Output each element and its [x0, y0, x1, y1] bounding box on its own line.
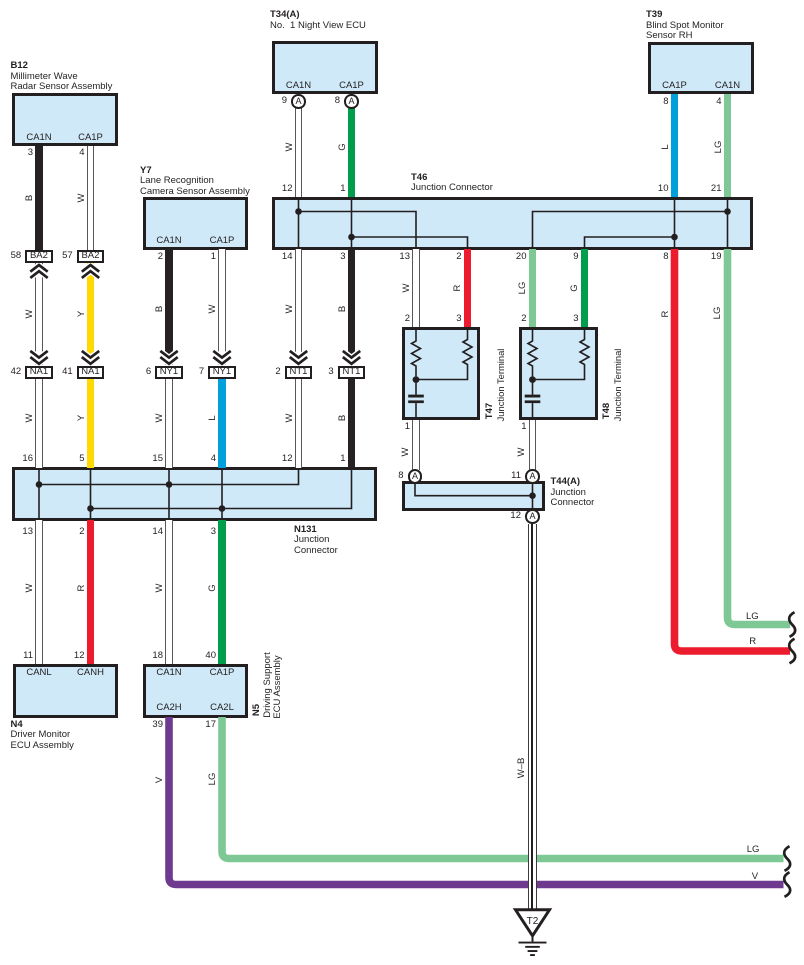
pin 14 N131 — [133, 527, 163, 537]
pin 1 T47 — [380, 422, 410, 432]
pin 3 N131 — [186, 527, 216, 537]
connector T44(A) pin11 connector A — [525, 469, 540, 484]
pin 12 T46 — [263, 184, 293, 194]
label N5 — [252, 704, 262, 716]
T46 interior wire to pin2 — [352, 237, 468, 249]
ECU Y7 Lane Recognition Camera Sensor Assembly — [143, 197, 248, 250]
label B — [25, 195, 35, 201]
wire W N131 pin13 to N4 CANL — [35, 520, 43, 664]
label LG — [714, 141, 724, 154]
label T47 — [485, 402, 495, 418]
pin 2 T47 — [380, 314, 410, 324]
wire V from N5 pin39 to right edge — [169, 717, 784, 885]
pin 10 T46 — [639, 184, 669, 194]
ground T2 — [516, 910, 550, 956]
chevron above NT1 pin2 — [290, 351, 307, 358]
label W — [285, 413, 295, 422]
pin names B12 — [9, 133, 69, 143]
pin names T39 — [645, 81, 705, 91]
node T46 pin21 junction — [724, 208, 731, 215]
node T46 pin1 junction — [348, 234, 355, 241]
label W — [402, 283, 412, 292]
wire G N131 pin3 to N5 CA1P — [218, 520, 226, 664]
continuation symbol R wire — [789, 639, 795, 664]
pin 8 T39 CA1P — [639, 97, 669, 107]
ECU T34(A) No.1 Night View ECU — [272, 41, 378, 94]
wire W-B T44(A) pin12 to ground T2 — [528, 524, 537, 911]
connector NT1 pin2 — [285, 366, 313, 379]
wire B B12 CA1N to BA2 — [35, 146, 43, 250]
wire B Y7 CA1N to NY1 — [165, 249, 173, 365]
label R — [77, 585, 87, 592]
T46 interior wire pin12-pin14 — [298, 198, 300, 249]
chevron below BA2 pin58 — [30, 265, 47, 272]
chevron below BA2 pin57 — [82, 265, 99, 272]
wire L T39 CA1P to T46 pin10 — [671, 94, 679, 197]
pin 5 N131 — [55, 454, 85, 464]
wire Y BA2 to NA1 — [87, 263, 95, 366]
wire W T47 pin1 to T44(A) pin8 — [412, 420, 420, 471]
N131 interior wire pin1 branch — [91, 468, 352, 509]
label B12 — [11, 61, 113, 93]
label T34(A) — [270, 10, 366, 31]
wire W T34(A) CA1N to T46 pin12 — [295, 108, 303, 197]
svg-text:T2: T2 — [527, 916, 539, 927]
label L — [208, 415, 218, 420]
node T46 pin12 junction — [295, 208, 302, 215]
pin 12 N131 — [263, 454, 293, 464]
wire G T46 pin9 to T48 pin3 — [581, 249, 589, 327]
label L — [661, 144, 671, 149]
pin names T34(A) — [269, 81, 329, 91]
ECU N4 Driver Monitor ECU Assembly — [13, 664, 118, 718]
pin 16 N131 — [3, 454, 33, 464]
chevron above NY1 pin6 — [160, 351, 177, 358]
pin 12 N4 CANH — [55, 651, 85, 661]
connector T44(A) pin12 connector A — [525, 509, 540, 524]
resistor T47 right — [419, 328, 472, 380]
pin 1 T46 — [316, 184, 346, 194]
wire W N131 pin14 to N5 CA1N — [165, 520, 173, 664]
pin 2 T48 — [497, 314, 527, 324]
label W — [25, 310, 35, 319]
pin 40 N5 CA1P — [186, 651, 216, 661]
pin 20 T46 — [497, 252, 527, 262]
N131 interior wire pin15-pin14 — [168, 468, 170, 520]
connector NY1 pin7 — [208, 366, 236, 379]
N131 interior wire pin12 branch — [39, 468, 299, 485]
label LG — [713, 307, 723, 320]
T46 interior wire to pin13 — [299, 212, 417, 250]
wire LG T39 CA1N to T46 pin21 — [724, 94, 732, 197]
ECU B12 Millimeter Wave Radar Sensor Assembly — [12, 93, 118, 146]
wire L NY1 to N131 pin4 — [218, 379, 226, 469]
wire R N131 pin2 to N4 CANH — [87, 520, 95, 664]
pin 1 Y7 CA1P — [186, 252, 216, 262]
node N131 pin15 junction — [166, 481, 173, 488]
label V — [155, 777, 165, 783]
label LG — [746, 612, 759, 622]
pin 13 T46 — [380, 252, 410, 262]
label W — [25, 584, 35, 593]
pin 2 T46 — [432, 252, 462, 262]
label LG — [208, 773, 218, 786]
pin 13 N131 — [3, 527, 33, 537]
wire LG from N5 pin17 to right edge — [222, 717, 784, 859]
pin names N5 — [139, 668, 199, 678]
connector T34(A) pin9 connector A — [291, 94, 306, 109]
label T46 — [411, 173, 493, 194]
wire W B12 CA1P to BA2 — [87, 146, 95, 250]
label W — [285, 143, 295, 152]
pin 9 T46 — [549, 252, 579, 262]
label R — [453, 284, 463, 291]
continuation symbol LG wire — [789, 612, 795, 637]
connector T44(A) pin8 connector A — [408, 469, 423, 484]
T46 interior wire pin10-pin8 — [674, 198, 676, 249]
pin 19 T46 — [692, 252, 722, 262]
label Y7 — [140, 166, 250, 198]
wire W NY1 to N131 pin15 — [165, 379, 173, 469]
wire R from T46 pin8 to right edge — [675, 249, 791, 651]
connector NA1 pin41 — [77, 366, 105, 379]
T46 interior wire to pin9 — [585, 237, 675, 249]
wire W Y7 CA1P to NY1 — [218, 249, 226, 365]
junction connector N131 — [12, 467, 378, 521]
node T48 junction — [529, 376, 536, 383]
pin 3 T48 — [549, 314, 579, 324]
connector BA2 pin58 — [25, 250, 53, 263]
connector NT1 pin3 — [338, 366, 366, 379]
node T44(A) junction — [529, 492, 536, 499]
junction connector T44(A) — [402, 481, 545, 511]
label V — [752, 872, 758, 882]
capacitor T48 — [532, 383, 534, 395]
resistor T48 right — [536, 328, 590, 380]
pin 1 T48 — [497, 422, 527, 432]
T46 interior wire pin21-pin19 — [727, 198, 729, 249]
junction terminal T48 — [519, 327, 598, 420]
resistor T47 left — [412, 328, 421, 376]
T46 interior wire to pin20 — [533, 212, 728, 250]
wire LG from T46 pin19 to right edge — [728, 249, 791, 625]
label N4 — [11, 720, 74, 752]
wire W NA1 to N131 pin16 — [35, 379, 43, 469]
label W-B — [517, 758, 527, 779]
connector BA2 pin57 — [77, 250, 105, 263]
T46 interior wire pin1-pin3 — [351, 198, 353, 249]
wire B T46 pin3 to NT1 — [348, 249, 356, 365]
chevron above NA1 pin41 — [82, 351, 99, 358]
label Y — [77, 311, 87, 317]
label N131 — [294, 525, 338, 557]
wire W NT1 to N131 pin12 — [295, 379, 303, 469]
connector NA1 pin42 — [25, 366, 53, 379]
label W — [401, 448, 411, 457]
pin 17 N5 CA2L — [186, 720, 216, 730]
label B — [338, 306, 348, 312]
label G — [570, 284, 580, 291]
wire G T34(A) CA1P to T46 pin1 — [348, 108, 356, 197]
T44(A) interior wire pin8 branch — [415, 482, 533, 496]
pin 1 N131 — [316, 454, 346, 464]
junction terminal T47 — [402, 327, 481, 420]
pin 3 T46 — [316, 252, 346, 262]
connector NY1 pin6 — [155, 366, 183, 379]
pin 4 B12 CA1P — [55, 148, 85, 158]
label R — [749, 637, 756, 647]
wire Y NA1 to N131 pin5 — [87, 379, 95, 469]
chevron above NA1 pin42 — [30, 351, 47, 358]
pin names N4 — [9, 668, 69, 678]
label G — [208, 584, 218, 591]
pin 8 T46 — [639, 252, 669, 262]
pin 2 N131 — [55, 527, 85, 537]
resistor T48 left — [528, 328, 537, 376]
label T48 — [602, 402, 612, 418]
pin 18 N5 CA1N — [133, 651, 163, 661]
T44(A) interior wire pin11-pin12 — [532, 482, 534, 510]
ECU N5 Driving Support ECU Assembly — [143, 664, 248, 718]
pin 21 T46 — [692, 184, 722, 194]
label LG — [747, 845, 760, 855]
wire B NT1 to N131 pin1 — [348, 379, 356, 469]
node N131 pin16 junction — [36, 481, 43, 488]
label B — [155, 306, 165, 312]
pin 15 N131 — [133, 454, 163, 464]
label Y — [77, 414, 87, 420]
wire R T46 pin2 to T47 pin3 — [464, 249, 472, 327]
label W — [517, 448, 527, 457]
pin 3 B12 CA1N — [3, 148, 33, 158]
node T47 junction — [413, 376, 420, 383]
wire LG T46 pin20 to T48 pin2 — [529, 249, 537, 327]
wire W T46 pin13 to T47 pin2 — [412, 249, 420, 327]
wire W T46 pin14 to NT1 — [295, 249, 303, 365]
node T46 pin10 junction — [671, 234, 678, 241]
label W — [285, 305, 295, 314]
label W — [155, 413, 165, 422]
ECU T39 Blind Spot Monitor Sensor RH — [648, 42, 754, 94]
label W — [155, 584, 165, 593]
N131 interior wire pin4-pin3 — [221, 468, 223, 520]
pin 2 Y7 CA1N — [133, 252, 163, 262]
chevron above NY1 pin7 — [213, 351, 230, 358]
label W — [208, 305, 218, 314]
label R — [661, 311, 671, 318]
label LG — [518, 281, 528, 294]
pin 3 T47 — [432, 314, 462, 324]
junction connector T46 — [272, 197, 753, 250]
label W — [77, 194, 87, 203]
wire W T48 pin1 to T44(A) pin11 — [529, 420, 537, 471]
pin names Y7 — [139, 236, 199, 246]
label T44(A) — [551, 477, 595, 509]
chevron above NT1 pin3 — [343, 351, 360, 358]
wire W BA2 to NA1 — [35, 263, 43, 366]
capacitor T47 — [415, 383, 417, 395]
label W — [25, 413, 35, 422]
pin 4 T39 CA1N — [692, 97, 722, 107]
node N131 pin5 junction — [87, 505, 94, 512]
node N131 pin4 junction — [219, 505, 226, 512]
continuation symbol V wire bottom — [784, 872, 790, 897]
label T39 — [646, 10, 724, 42]
label G — [338, 143, 348, 150]
connector T34(A) pin8 connector A — [344, 94, 359, 109]
pin 4 N131 — [186, 454, 216, 464]
N131 interior wire pin5-pin2 — [90, 468, 92, 520]
continuation symbol LG wire bottom — [784, 846, 790, 871]
label B — [338, 414, 348, 420]
pin 11 N4 CANL — [3, 651, 33, 661]
pin 14 T46 — [263, 252, 293, 262]
pin 39 N5 CA2H — [133, 720, 163, 730]
N131 interior wire pin16-pin13 — [38, 468, 40, 520]
